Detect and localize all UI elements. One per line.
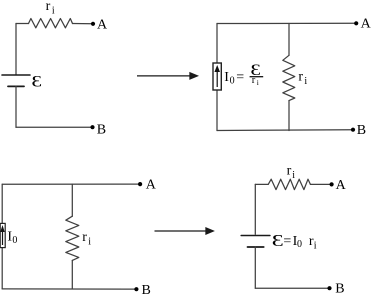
- svg-text:i: i: [52, 6, 55, 17]
- wire TR middle branch upper: [288, 24, 290, 56]
- resistor r_i (top-left, horizontal zigzag): [29, 19, 73, 28]
- svg-text:r: r: [298, 70, 303, 85]
- current source U1 box (top-right): [213, 63, 221, 90]
- wire BL top horizontal: [2, 183, 140, 185]
- node A terminal dot (bottom-left): [138, 182, 142, 186]
- svg-text:i: i: [292, 170, 295, 181]
- svg-text:I: I: [224, 70, 229, 85]
- wire BR resistor to node A: [310, 183, 331, 185]
- node A terminal dot (top-left): [91, 22, 95, 26]
- svg-text:i: i: [304, 76, 307, 87]
- svg-text:A: A: [361, 16, 372, 31]
- resistor r_i (bottom-right, horizontal zigzag): [268, 179, 310, 189]
- node B terminal dot (bottom-left): [134, 287, 138, 291]
- svg-text:B: B: [97, 123, 106, 138]
- transform arrow (top middle): [137, 73, 197, 79]
- svg-text:A: A: [97, 17, 108, 32]
- svg-text:r: r: [46, 0, 51, 14]
- svg-text:r: r: [82, 230, 87, 245]
- svg-text:B: B: [357, 123, 366, 138]
- node B terminal dot (top-right): [351, 128, 355, 132]
- svg-text:B: B: [335, 282, 344, 297]
- node B terminal dot (bottom-right): [327, 286, 331, 290]
- current source I0 arrow: [1, 227, 4, 245]
- wire BL bottom horizontal: [2, 288, 136, 290]
- svg-text:A: A: [146, 178, 157, 193]
- transform arrow (bottom middle): [155, 228, 214, 234]
- svg-text:r: r: [252, 75, 256, 86]
- battery E=I0ri (bottom-right) long plate: [241, 235, 270, 237]
- wire BR battery to bottom: [254, 247, 256, 288]
- svg-text:Ɛ: Ɛ: [31, 73, 42, 90]
- svg-text:Ɛ: Ɛ: [272, 231, 284, 251]
- wire TR top horizontal: [217, 22, 356, 24]
- wire TL resistor to node A: [73, 23, 94, 25]
- node A terminal dot (bottom-right): [330, 182, 334, 186]
- wire TR left vertical lower (current source to bottom): [216, 90, 218, 131]
- svg-text:B: B: [142, 283, 151, 298]
- resistor r_i (top-right, vertical zigzag): [283, 55, 295, 100]
- svg-text:A: A: [336, 178, 347, 193]
- wire BL middle branch upper: [71, 184, 73, 216]
- wire TL left vertical (top wire to battery): [15, 24, 17, 75]
- svg-text:0: 0: [297, 239, 302, 250]
- resistor r_i (bottom-left, vertical zigzag): [66, 216, 79, 260]
- wire TL top lead-in: [16, 23, 29, 25]
- wire TR left vertical upper (to current source): [216, 24, 218, 64]
- svg-text:=: =: [283, 234, 291, 249]
- battery E=I0ri (bottom-right) short plate: [248, 246, 264, 248]
- wire TR bottom horizontal: [217, 129, 353, 132]
- svg-text:0: 0: [12, 235, 17, 246]
- wire BL left vertical upper: [1, 184, 3, 223]
- wire TL bottom horizontal to node B: [16, 126, 93, 128]
- svg-text:0: 0: [230, 75, 235, 86]
- wire BR left vertical upper (top wire to battery): [254, 184, 256, 234]
- wire TR middle branch lower: [288, 101, 290, 131]
- node B terminal dot (top-left): [90, 125, 94, 129]
- current source I0 box (bottom-left, clipped at edge): [0, 223, 5, 247]
- wire TL battery to bottom: [15, 86, 17, 127]
- svg-text:i: i: [314, 240, 317, 251]
- wire BL middle branch lower: [71, 260, 73, 289]
- svg-text:i: i: [88, 236, 91, 247]
- node A terminal dot (top-right): [354, 21, 358, 25]
- svg-text:r: r: [287, 164, 292, 179]
- wire BR bottom horizontal to node B: [255, 287, 329, 289]
- svg-text:=: =: [236, 70, 244, 85]
- battery E (top-left) short plate: [8, 85, 24, 87]
- wire BR top lead-in: [255, 183, 268, 185]
- battery E (top-left) long plate: [2, 74, 30, 76]
- wire BL left vertical lower: [1, 248, 3, 289]
- svg-text:i: i: [257, 78, 259, 87]
- current source U1 arrow: [215, 67, 219, 87]
